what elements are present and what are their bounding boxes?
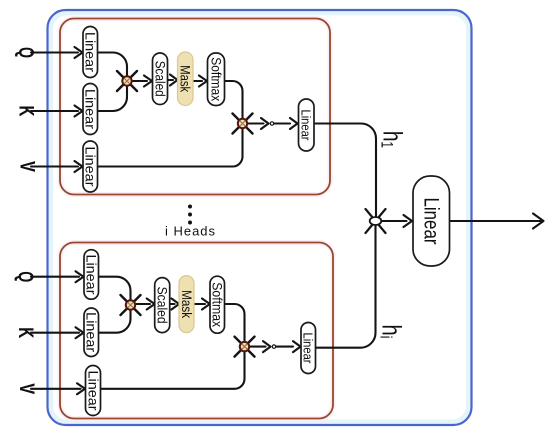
- svg-text:Scaled: Scaled: [155, 287, 170, 324]
- svg-text:Q: Q: [14, 271, 37, 282]
- arrowhead into Scaled1: [144, 76, 152, 87]
- wire M3 to Scaled2: [136, 303, 151, 305]
- Softmax box 2: [210, 276, 225, 333]
- arrowhead into Softmax2: [202, 299, 210, 310]
- mult node M1 (circle-x): [117, 71, 137, 91]
- svg-text:Linear: Linear: [83, 89, 98, 129]
- svg-text:Mask: Mask: [178, 65, 193, 92]
- Scaled box 2: [155, 278, 170, 333]
- wire out Linear2 to hi bend up: [316, 221, 376, 348]
- halo of head block 2 (scan artifact): [60, 243, 333, 419]
- halo of outer box (scan artifact): [51, 13, 469, 422]
- wire Q1 input: [31, 51, 78, 53]
- wire M2 to out Linear1 (double arrow): [248, 122, 264, 124]
- outer container box: [48, 10, 472, 425]
- Linear box K2: [84, 308, 99, 357]
- svg-text:Linear: Linear: [420, 198, 443, 245]
- Softmax box 1: [208, 53, 225, 106]
- wire K1 input: [31, 110, 78, 112]
- wire K1 Linear to mult node M1: [98, 81, 128, 111]
- svg-text:Linear: Linear: [86, 371, 101, 411]
- wire out Linear1 to h1 bend down: [314, 124, 376, 222]
- wire K2 Linear to mult node M3: [99, 305, 131, 333]
- wire output exit: [450, 220, 543, 222]
- arrowhead into out Linear1: [290, 118, 298, 129]
- arrowhead into Softmax1: [199, 76, 207, 87]
- svg-text:Linear: Linear: [299, 110, 314, 142]
- svg-text:Softmax: Softmax: [209, 57, 224, 101]
- svg-text:K: K: [14, 327, 37, 338]
- ellipsis dots between heads: [188, 205, 192, 225]
- arrowhead K2: [76, 327, 84, 338]
- junction dot top: [270, 122, 273, 125]
- mult node M4 (circle-x): [235, 337, 255, 357]
- out Linear box 1: [299, 99, 315, 151]
- mult node M2 (circle-x): [233, 114, 253, 134]
- arrowhead Q2: [76, 271, 84, 282]
- wire Q2 input: [31, 276, 79, 278]
- wire Scaled1 to Mask1: [168, 79, 174, 81]
- wire Softmax2 to mult node M4: [225, 304, 245, 347]
- wire junction to out Linear1: [275, 122, 291, 124]
- halo of head block 1 (scan artifact): [60, 19, 330, 195]
- wire Mask2 to Softmax2: [194, 303, 205, 305]
- wire M1 to Scaled1: [132, 80, 147, 82]
- svg-text:Linear: Linear: [84, 255, 99, 295]
- wire K2 input: [31, 332, 79, 334]
- svg-text:Q: Q: [15, 47, 38, 58]
- wire V1 input: [31, 165, 78, 167]
- arrowhead V2: [77, 383, 85, 394]
- arrowhead V1: [75, 161, 83, 172]
- arrowhead into Scaled2: [147, 299, 155, 310]
- arrowhead mid 1: [261, 118, 269, 129]
- attention head block 2 (bottom red frame): [60, 243, 333, 419]
- Linear box Q1: [83, 27, 98, 78]
- big Linear box: [413, 176, 450, 266]
- mult node M3 (circle-x): [121, 295, 141, 315]
- arrowhead output: [533, 214, 544, 229]
- wire V1 Linear to mult node M2: [98, 124, 243, 167]
- Linear box V1: [83, 141, 98, 192]
- svg-text:Softmax: Softmax: [210, 282, 225, 327]
- wire V2 input: [31, 388, 81, 390]
- svg-text:Linear: Linear: [301, 333, 316, 365]
- Scaled box 1: [153, 53, 168, 105]
- svg-text:Scaled: Scaled: [153, 61, 168, 97]
- Linear box Q2: [84, 250, 99, 300]
- svg-text:h1: h1: [378, 131, 408, 148]
- junction dot bottom: [272, 345, 275, 348]
- wire junction to out Linear2: [277, 346, 294, 348]
- svg-text:V: V: [15, 383, 38, 394]
- svg-text:Mask: Mask: [179, 290, 194, 318]
- wire concat node to big Linear: [382, 220, 407, 222]
- Mask box 1: [178, 52, 194, 106]
- svg-text:Linear: Linear: [83, 32, 98, 72]
- Linear box K1: [83, 84, 98, 135]
- svg-text:hi: hi: [377, 325, 407, 339]
- svg-text:Linear: Linear: [84, 312, 99, 352]
- wire M4 to out Linear2 (double arrow): [250, 346, 266, 348]
- arrowhead into big Linear: [404, 215, 413, 227]
- arrowhead mid 2: [263, 341, 271, 352]
- Mask box 2: [179, 276, 194, 333]
- concat node (big circle-x): [366, 209, 386, 233]
- wire Mask1 to Softmax1: [193, 80, 202, 82]
- wire Q1 Linear to mult node M1: [98, 53, 128, 82]
- arrowhead into Mask1: [170, 75, 178, 86]
- out Linear box 2: [301, 323, 316, 374]
- wire Scaled2 to Mask2: [170, 303, 175, 305]
- attention head block 1 (top red frame): [60, 19, 330, 195]
- svg-text:V: V: [16, 161, 39, 172]
- wire Q2 Linear to mult node M3: [99, 277, 131, 305]
- arrowhead K1: [75, 106, 83, 117]
- arrowhead Q1: [75, 47, 83, 58]
- svg-text:Linear: Linear: [83, 147, 98, 187]
- svg-text:K: K: [15, 106, 38, 117]
- svg-text:i Heads: i Heads: [165, 224, 216, 239]
- wire Softmax1 to mult node M2: [225, 81, 243, 124]
- Linear box V2: [86, 366, 101, 416]
- wire V2 Linear to mult node M4: [101, 347, 245, 389]
- arrowhead into Mask2: [172, 299, 180, 310]
- arrowhead into out Linear2: [293, 341, 301, 352]
